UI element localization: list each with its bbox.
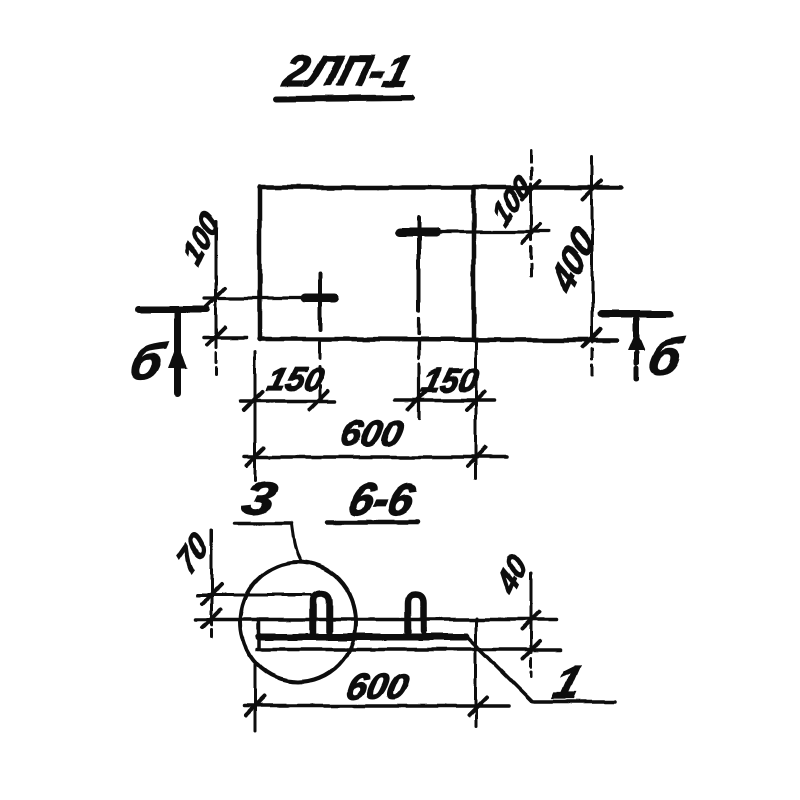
svg-text:40: 40 xyxy=(491,547,534,602)
svg-text:6-6: 6-6 xyxy=(344,476,421,524)
svg-text:3: 3 xyxy=(237,473,282,525)
svg-text:б: б xyxy=(125,334,171,390)
svg-text:150: 150 xyxy=(418,363,482,399)
svg-text:100: 100 xyxy=(177,205,225,272)
svg-text:600: 600 xyxy=(343,666,413,706)
svg-text:150: 150 xyxy=(263,362,327,398)
svg-text:2ЛП-1: 2ЛП-1 xyxy=(278,48,416,96)
svg-text:70: 70 xyxy=(171,525,214,580)
svg-text:600: 600 xyxy=(337,413,407,453)
svg-text:б: б xyxy=(643,329,689,385)
